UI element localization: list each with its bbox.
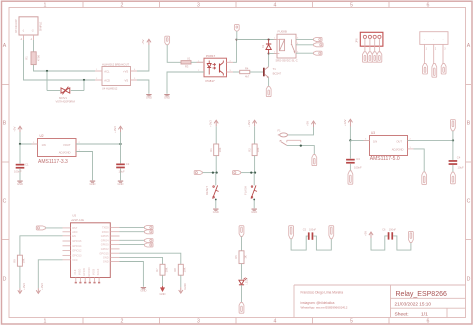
power +3V3 (RESET) xyxy=(209,120,219,144)
svg-text:4: 4 xyxy=(274,319,277,325)
svg-text:PC817: PC817 xyxy=(206,54,216,58)
svg-text:AMS1117-5.0: AMS1117-5.0 xyxy=(370,156,400,162)
wire C5 to JP19 xyxy=(313,236,331,250)
svg-text:GND: GND xyxy=(118,182,124,186)
svg-text:GPIO9: GPIO9 xyxy=(82,268,86,276)
power +3V3 (U2 out) xyxy=(113,126,123,144)
IC U3 AMS1117-5.0 xyxy=(364,131,414,162)
connector JP18 xyxy=(289,226,294,239)
ground (RESET) xyxy=(213,209,219,215)
connector JP20 xyxy=(409,231,414,242)
capacitor C4 xyxy=(449,140,464,172)
svg-text:A: A xyxy=(467,43,471,49)
svg-text:3: 3 xyxy=(197,2,200,8)
svg-text:-VS: -VS xyxy=(124,78,129,82)
title block sheet xyxy=(395,312,429,318)
svg-text:6: 6 xyxy=(427,2,430,8)
wire C6 to JP20 xyxy=(393,236,411,250)
svg-text:ACL: ACL xyxy=(104,69,110,73)
connector JP RESET xyxy=(194,171,202,175)
power +5V up (C6) xyxy=(363,231,373,238)
svg-text:470K: 470K xyxy=(37,55,41,61)
wire LED down xyxy=(241,285,243,303)
title block document name xyxy=(396,291,447,298)
capacitor C2 xyxy=(116,144,130,180)
svg-text:Francisco Diego Lima Moreira: Francisco Diego Lima Moreira xyxy=(301,291,344,295)
svg-text:10uF: 10uF xyxy=(458,166,464,170)
wire GPIO0 xyxy=(120,244,145,246)
connector JP19 xyxy=(329,226,334,239)
connector SV1 3-pin xyxy=(420,32,448,77)
svg-text:GPIO12: GPIO12 xyxy=(72,249,82,253)
wire relay NC xyxy=(296,52,314,54)
svg-text:GND: GND xyxy=(213,210,219,214)
connector JP11 (RST) xyxy=(36,226,45,230)
svg-text:ADC: ADC xyxy=(72,230,78,234)
svg-text:AMS1117-3.3: AMS1117-3.3 xyxy=(38,159,68,165)
capacitor C6 xyxy=(382,229,396,240)
svg-text:C1: C1 xyxy=(25,162,29,166)
wire EN pullup xyxy=(20,236,63,255)
svg-text:R1: R1 xyxy=(25,56,29,60)
svg-text:GND: GND xyxy=(140,289,146,293)
svg-text:WhatsApp: wa.me/5585996602412: WhatsApp: wa.me/5585996602412 xyxy=(301,305,348,309)
wire +5V to IN xyxy=(20,132,38,144)
svg-text:SRD-05VDC-SL-C: SRD-05VDC-SL-C xyxy=(276,58,298,62)
node junction U3 out xyxy=(452,139,454,141)
svg-text:+VS: +VS xyxy=(123,69,128,73)
wire opto cathode to GND xyxy=(167,72,204,94)
resistor R1 pull-up xyxy=(209,144,222,156)
svg-text:C: C xyxy=(3,199,7,205)
fuse F1 xyxy=(278,128,288,137)
resistor R8 xyxy=(173,264,186,275)
svg-text:Relay_ESP8266: Relay_ESP8266 xyxy=(396,291,447,298)
wire JP18 to C5 xyxy=(291,236,308,250)
svg-text:+ESP-12E: +ESP-12E xyxy=(71,218,84,222)
svg-text:BC547: BC547 xyxy=(273,71,282,75)
svg-text:10K: 10K xyxy=(218,147,222,152)
svg-text:GND: GND xyxy=(183,283,187,289)
node junction U2 in xyxy=(19,143,21,145)
wire FLASH node xyxy=(241,156,255,173)
svg-text:D: D xyxy=(3,277,7,283)
svg-text:21/03/2022 15:10: 21/03/2022 15:10 xyxy=(395,302,432,307)
power +12V (U3 in) xyxy=(343,119,353,140)
svg-text:GPIO13: GPIO13 xyxy=(72,254,82,258)
svg-text:C2: C2 xyxy=(126,162,130,166)
svg-text:GND: GND xyxy=(17,182,23,186)
svg-text:4: 4 xyxy=(274,2,277,8)
svg-text:C4: C4 xyxy=(457,155,461,159)
connector JP13 (RXD0) xyxy=(145,230,154,234)
svg-text:GPIO15: GPIO15 xyxy=(99,251,109,255)
connector JP15 (GPIO0) xyxy=(145,243,154,247)
svg-text:-: - xyxy=(443,38,444,41)
svg-text:MISO: MISO xyxy=(77,269,81,276)
svg-text:R3: R3 xyxy=(185,65,189,69)
wire switch to gnd RESET xyxy=(215,199,217,209)
svg-text:GPIO4: GPIO4 xyxy=(101,238,109,242)
connector JP2 xyxy=(165,36,170,45)
svg-text:GPIO2: GPIO2 xyxy=(101,247,109,251)
title block frame xyxy=(294,285,466,318)
svg-text:Sheet:: Sheet: xyxy=(395,312,409,318)
svg-text:3: 3 xyxy=(197,319,200,325)
transistor T1 BC547 xyxy=(263,67,282,78)
svg-text:V07K420P0RM: V07K420P0RM xyxy=(56,100,76,104)
svg-text:GND: GND xyxy=(103,256,109,260)
switch S1 xyxy=(280,140,301,145)
wire U3 out xyxy=(408,139,454,141)
node junction varistor-bottom xyxy=(83,79,85,81)
node junction diode-bottom xyxy=(268,52,270,54)
svg-text:+3V3: +3V3 xyxy=(247,120,251,127)
node junction diode-top xyxy=(268,38,270,40)
svg-text:ADJ/GND: ADJ/GND xyxy=(59,151,71,155)
wire relay NO xyxy=(296,38,314,40)
IC U4 HLW8012 breakout xyxy=(95,62,137,90)
resistor R4 xyxy=(240,66,250,78)
svg-text:VCC: VCC xyxy=(72,258,78,262)
svg-text:6: 6 xyxy=(427,319,430,325)
svg-text:RXD0: RXD0 xyxy=(102,230,109,234)
svg-text:U3: U3 xyxy=(371,131,375,135)
svg-text:FLASH: FLASH xyxy=(243,186,247,195)
connector X3 xyxy=(314,43,323,47)
wire R3 to opto anode xyxy=(191,61,204,63)
connector X4 xyxy=(314,51,322,55)
power +5V (U2 in) xyxy=(13,126,23,132)
svg-text:10K: 10K xyxy=(164,267,168,272)
svg-text:CLK: CLK xyxy=(73,269,77,274)
wire coil top xyxy=(237,39,280,41)
node junction U2 out xyxy=(119,143,121,145)
svg-text:100nF: 100nF xyxy=(14,169,22,173)
wire coil bottom xyxy=(269,53,279,55)
connector JP9 (adj gnd) xyxy=(422,172,427,184)
svg-text:TXD0: TXD0 xyxy=(102,226,109,230)
svg-text:R8: R8 xyxy=(173,268,177,272)
resistor R5 xyxy=(234,251,247,264)
wire R7 down xyxy=(162,275,164,286)
connector JP5 xyxy=(312,155,317,166)
wire emitter down xyxy=(268,77,270,86)
svg-text:1K: 1K xyxy=(243,255,247,258)
svg-text:GND: GND xyxy=(90,182,96,186)
svg-text:+5V: +5V xyxy=(13,127,17,132)
wire X1 pin2 to R1 xyxy=(33,40,35,52)
wire X1 pin1 to ACD xyxy=(24,40,96,80)
connector JP FLASH xyxy=(233,171,241,175)
svg-text:U5: U5 xyxy=(72,213,76,217)
power +5V (fuse) xyxy=(306,121,316,127)
connector X2 xyxy=(314,37,322,44)
title block date xyxy=(395,302,432,307)
svg-text:10uF: 10uF xyxy=(119,169,125,173)
connector JP17 (LED out) xyxy=(239,302,244,313)
ground (FLASH) xyxy=(251,209,257,215)
svg-text:ACD: ACD xyxy=(104,78,110,82)
svg-text:2: 2 xyxy=(121,319,124,325)
svg-text:A: A xyxy=(3,43,7,49)
wire R1 to ACL xyxy=(34,65,96,71)
wire -VS to GND xyxy=(137,80,149,94)
svg-text:U2: U2 xyxy=(40,134,44,138)
svg-text:SIMPLE: SIMPLE xyxy=(39,21,43,31)
resistor R1 xyxy=(25,52,41,65)
svg-text:GND: GND xyxy=(160,292,166,296)
svg-text:10K: 10K xyxy=(256,147,260,152)
connector JP10 (C4 gnd) xyxy=(451,172,456,184)
wire collector up xyxy=(268,54,270,67)
svg-text:R7: R7 xyxy=(155,268,159,272)
svg-text:LED1: LED1 xyxy=(246,278,249,285)
LED LED1 xyxy=(239,278,249,285)
node junction FLASH xyxy=(250,171,256,173)
svg-text:GND: GND xyxy=(164,96,170,100)
svg-text:GPIO5: GPIO5 xyxy=(101,234,109,238)
svg-text:R9: R9 xyxy=(12,259,16,263)
power +3V3 down (VCC) xyxy=(36,283,44,294)
resistor R7 xyxy=(155,264,168,275)
svg-text:C3: C3 xyxy=(356,157,360,161)
svg-text:1: 1 xyxy=(44,2,47,8)
wire +5V to C6 xyxy=(371,236,388,250)
connector JP8 (C3 gnd) xyxy=(348,171,353,184)
wire VCC xyxy=(38,260,62,288)
svg-text:+5V: +5V xyxy=(141,39,145,44)
capacitor C1 xyxy=(14,144,29,180)
wire opto collector up xyxy=(233,40,237,63)
connector JP3 xyxy=(234,25,239,40)
wire GND pin xyxy=(120,262,144,287)
svg-text:R1: R1 xyxy=(209,148,213,152)
power +3V3 (FLASH) xyxy=(247,120,257,144)
svg-text:B: B xyxy=(3,121,7,127)
wire +VS to +5V xyxy=(137,45,149,71)
svg-text:D: D xyxy=(467,277,471,283)
svg-text:GND: GND xyxy=(251,210,257,214)
resistor R3 xyxy=(181,57,191,69)
wire RXD0 xyxy=(120,231,145,233)
switch S FLASH xyxy=(243,185,257,198)
varistor MOV1 xyxy=(47,71,84,104)
wire switch to JP xyxy=(287,146,315,155)
wire U3 in xyxy=(350,139,369,141)
svg-text:+3V3: +3V3 xyxy=(22,283,26,290)
capacitor C3 xyxy=(346,140,362,170)
svg-text:RESET: RESET xyxy=(205,186,209,195)
svg-text:GPIO16: GPIO16 xyxy=(72,239,82,243)
svg-text:+3V3: +3V3 xyxy=(209,120,213,127)
svg-text:100nF: 100nF xyxy=(309,229,317,232)
power +3V3 down (EN) xyxy=(18,283,26,294)
ground (opto) xyxy=(164,94,170,100)
svg-text:2: 2 xyxy=(121,2,124,8)
svg-text:MOSI: MOSI xyxy=(92,268,96,275)
connector JP7 (5V out) xyxy=(451,120,456,141)
svg-text:VOUT: VOUT xyxy=(63,143,71,147)
svg-text:U1: U1 xyxy=(187,57,191,61)
svg-text:-: - xyxy=(433,38,434,41)
svg-text:EN: EN xyxy=(72,234,76,238)
wire TXD0 xyxy=(120,226,145,228)
title block author text xyxy=(301,291,348,310)
connector JP12 (TXD0) xyxy=(145,225,154,229)
svg-text:R5: R5 xyxy=(234,255,238,259)
node junction RESET xyxy=(212,171,218,173)
connector JP4 (emitter) xyxy=(266,87,271,97)
svg-text:5: 5 xyxy=(350,2,353,8)
power +5V (U4) xyxy=(141,39,151,45)
svg-text:R4: R4 xyxy=(245,66,249,70)
connector X1 terminal block xyxy=(14,17,43,41)
node junction switch xyxy=(300,144,302,146)
svg-text:SCLK: SCLK xyxy=(96,268,100,275)
connector JP14 (GPIO4) xyxy=(145,239,154,243)
svg-text:KY-023-DIP: KY-023-DIP xyxy=(14,19,18,33)
svg-text:HLW-8012 BREAKOUT: HLW-8012 BREAKOUT xyxy=(102,62,130,66)
svg-text:10K: 10K xyxy=(183,267,187,272)
resistor R2 pull-up xyxy=(247,144,260,156)
optocoupler U1 PC817 xyxy=(197,54,234,83)
node junction varistor-top xyxy=(46,70,48,72)
svg-text:F1: F1 xyxy=(278,128,282,132)
node junction U3 in xyxy=(349,139,351,141)
relay K1 SRD-05VDC-SL-C xyxy=(274,30,299,63)
ground (U4 -VS) xyxy=(146,94,152,100)
svg-text:+12V: +12V xyxy=(343,119,347,126)
wire relay COM xyxy=(296,44,314,46)
svg-text:+5V: +5V xyxy=(363,231,367,236)
svg-text:4k7: 4k7 xyxy=(245,74,250,78)
wire to switch FLASH xyxy=(253,173,255,186)
svg-text:instagram: @hildekalica: instagram: @hildekalica xyxy=(301,301,335,305)
resistor R9 pull-up EN xyxy=(12,255,25,266)
wire JP2 to R3 xyxy=(167,45,181,63)
wire GPIO15 pulldown xyxy=(120,253,181,264)
svg-text:GPIO14: GPIO14 xyxy=(72,244,82,248)
power GND down (R8) xyxy=(179,283,188,293)
svg-text:GPIO10: GPIO10 xyxy=(87,267,91,277)
svg-text:PC817: PC817 xyxy=(206,79,216,83)
svg-text:ADJ/GND: ADJ/GND xyxy=(392,148,404,152)
ground arrow (R7) xyxy=(160,286,166,296)
wire RST xyxy=(45,227,62,229)
svg-text:B: B xyxy=(467,121,471,127)
svg-text:1IN: 1IN xyxy=(42,143,46,147)
wire JP16 to R5 xyxy=(241,236,243,250)
wire GPIO4 xyxy=(120,239,145,241)
svg-text:RST: RST xyxy=(72,226,78,230)
IC U5 ESP8266 module xyxy=(63,213,120,283)
svg-text:JP6: JP6 xyxy=(355,38,359,43)
wire U3 adj xyxy=(414,149,425,172)
svg-text:GND: GND xyxy=(103,260,109,264)
svg-text:100nF: 100nF xyxy=(389,229,397,232)
wire R4 to base xyxy=(250,71,263,73)
ground (U2 adj) xyxy=(90,181,96,187)
svg-text:100nF: 100nF xyxy=(354,166,362,170)
svg-text:U4 HLW8012: U4 HLW8012 xyxy=(102,86,118,90)
wire R9 down xyxy=(19,266,21,288)
svg-text:5: 5 xyxy=(350,319,353,325)
svg-text:GPIO0: GPIO0 xyxy=(101,243,109,247)
capacitor C5 xyxy=(303,229,317,240)
wire R8 down xyxy=(180,275,182,287)
wire U2 adj xyxy=(76,152,93,181)
node junction coil supply xyxy=(235,38,237,40)
ground (C2) xyxy=(118,181,124,187)
pin header JP6 xyxy=(355,32,383,62)
svg-text:1IN: 1IN xyxy=(373,139,377,143)
wire to switch RESET xyxy=(215,173,217,186)
wire RESET node xyxy=(202,156,216,173)
svg-text:C: C xyxy=(467,199,471,205)
ground (U5) xyxy=(140,287,146,293)
ground (C1) xyxy=(17,181,23,187)
svg-text:GND: GND xyxy=(146,96,152,100)
wire GPIO2 pulldown xyxy=(120,257,163,264)
connector JP16 (LED in) xyxy=(239,226,244,237)
switch S RESET xyxy=(205,185,219,198)
wire opto emitter to R4 xyxy=(233,71,240,73)
svg-text:R2: R2 xyxy=(247,148,251,152)
svg-text:1/1: 1/1 xyxy=(421,312,428,318)
svg-text:+5V: +5V xyxy=(306,121,310,126)
wire VOUT to +3V3 xyxy=(76,143,121,145)
svg-text:10K: 10K xyxy=(22,258,26,263)
svg-text:+3V3: +3V3 xyxy=(40,283,44,290)
wire switch to gnd FLASH xyxy=(253,199,255,209)
svg-text:FU08B: FU08B xyxy=(278,30,287,34)
svg-text:+3V3: +3V3 xyxy=(113,126,117,133)
wire R5 to LED xyxy=(241,264,243,280)
svg-text:OUT: OUT xyxy=(396,139,402,143)
svg-text:1: 1 xyxy=(44,319,47,325)
svg-text:-: - xyxy=(424,38,425,41)
diode D1 flyback xyxy=(262,40,271,54)
IC U2 AMS1117-3.3 xyxy=(32,134,83,165)
wire +5V to fuse xyxy=(287,127,313,135)
